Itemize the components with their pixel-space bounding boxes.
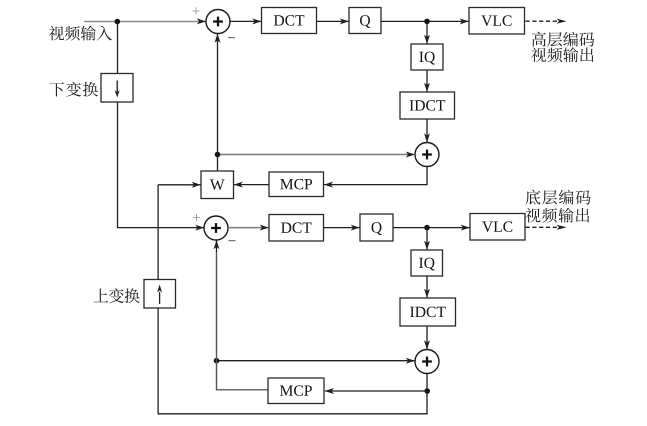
- wire: IDCT to adder A2 (base): [426, 326, 428, 349]
- wire: bottom bus to upconverter: [158, 413, 428, 415]
- node: junction after Q (base layer): [424, 225, 430, 231]
- block 下变换 (down-converter): [101, 74, 133, 103]
- wire: downconverter to base-layer subtractor S2: [118, 102, 205, 228]
- wire: DCT to Q: [317, 20, 349, 22]
- wire: VLC dashed output (base layer): [526, 226, 560, 228]
- block IQ (high layer): [411, 44, 443, 70]
- node: junction after Q (high layer): [424, 19, 430, 25]
- node: base prediction junction: [214, 358, 220, 364]
- block IDCT (base layer): [400, 298, 456, 326]
- label 视频输出 (video output): [531, 47, 593, 62]
- wire: Q to VLC: [381, 20, 469, 22]
- node: input branch junction: [115, 19, 121, 25]
- wire: MCP output up to S2 minus input: [216, 389, 268, 391]
- block W (weighting): [201, 171, 234, 199]
- symbol: down arrow inside downconverter: [116, 81, 118, 93]
- sign − at subtractor S1: [228, 36, 235, 39]
- adder A1 (high layer reconstruction): [415, 143, 439, 167]
- subtractor S2 (base layer): [204, 216, 228, 240]
- wire: base reconstruction up through upconverter to W: [157, 308, 159, 414]
- wire: IDCT to adder A1: [426, 119, 428, 142]
- block Q (high layer): [349, 8, 381, 34]
- wire: MCP to W: [234, 184, 269, 186]
- label 视频输出 (video output): [525, 208, 589, 223]
- wire: upsampled base layer into W left input: [158, 184, 201, 186]
- label 底层编码 (base-layer coded): [526, 190, 591, 205]
- wire: VLC dashed output (high layer): [526, 20, 560, 22]
- sign + at subtractor S1: [192, 7, 199, 14]
- block DCT (base layer): [269, 215, 324, 242]
- label 视频输入 (video input): [49, 26, 112, 41]
- wire: A2 output down to bottom bus: [426, 374, 428, 414]
- block DCT (high layer): [262, 8, 317, 34]
- block IQ (base layer): [411, 250, 443, 276]
- symbol: up arrow inside upconverter: [159, 292, 161, 304]
- wire: video input line: [84, 21, 206, 23]
- node: junction to MCP input (base): [424, 388, 430, 394]
- wire: IQ to IDCT (base): [426, 276, 428, 298]
- wire: S2 to DCT (base): [228, 227, 269, 229]
- wire: junction into MCP (base): [325, 390, 427, 392]
- wire: S1 to DCT: [230, 20, 261, 22]
- sign − at subtractor S2: [228, 239, 235, 242]
- wire: W box top stub: [217, 155, 219, 172]
- block MCP (high layer): [269, 172, 324, 197]
- wire: IQ to IDCT: [426, 70, 428, 92]
- block VLC (high layer): [469, 8, 525, 35]
- subtractor S1 (high layer): [206, 10, 230, 34]
- wire: Q to VLC (base): [393, 227, 470, 229]
- block Q (base layer): [360, 214, 393, 241]
- wire: junction down to IQ (base): [426, 228, 428, 250]
- block VLC (base layer): [470, 214, 525, 241]
- node: W output junction: [215, 152, 221, 158]
- wire: prediction junction to adder A2: [217, 360, 416, 362]
- sign + at subtractor S2: [193, 214, 200, 221]
- block MCP (base layer): [268, 378, 324, 404]
- block IDCT (high layer): [400, 92, 455, 119]
- block 上变换 (up-converter): [144, 280, 176, 309]
- label 上变换 (up conversion): [93, 288, 139, 303]
- wire: DCT to Q (base): [324, 227, 360, 229]
- wire: A1 output loop to MCP: [324, 167, 427, 185]
- wire: W output junction to adder A1: [218, 154, 416, 156]
- wire: prediction up to S1 minus input: [217, 34, 219, 155]
- adder A2 (base layer reconstruction): [415, 350, 439, 374]
- label 高层编码 (high-layer coded): [532, 32, 595, 47]
- wire: input junction down to downconverter: [117, 21, 119, 74]
- wire: junction down to IQ: [426, 21, 428, 43]
- label 下变换 (down conversion): [49, 82, 98, 97]
